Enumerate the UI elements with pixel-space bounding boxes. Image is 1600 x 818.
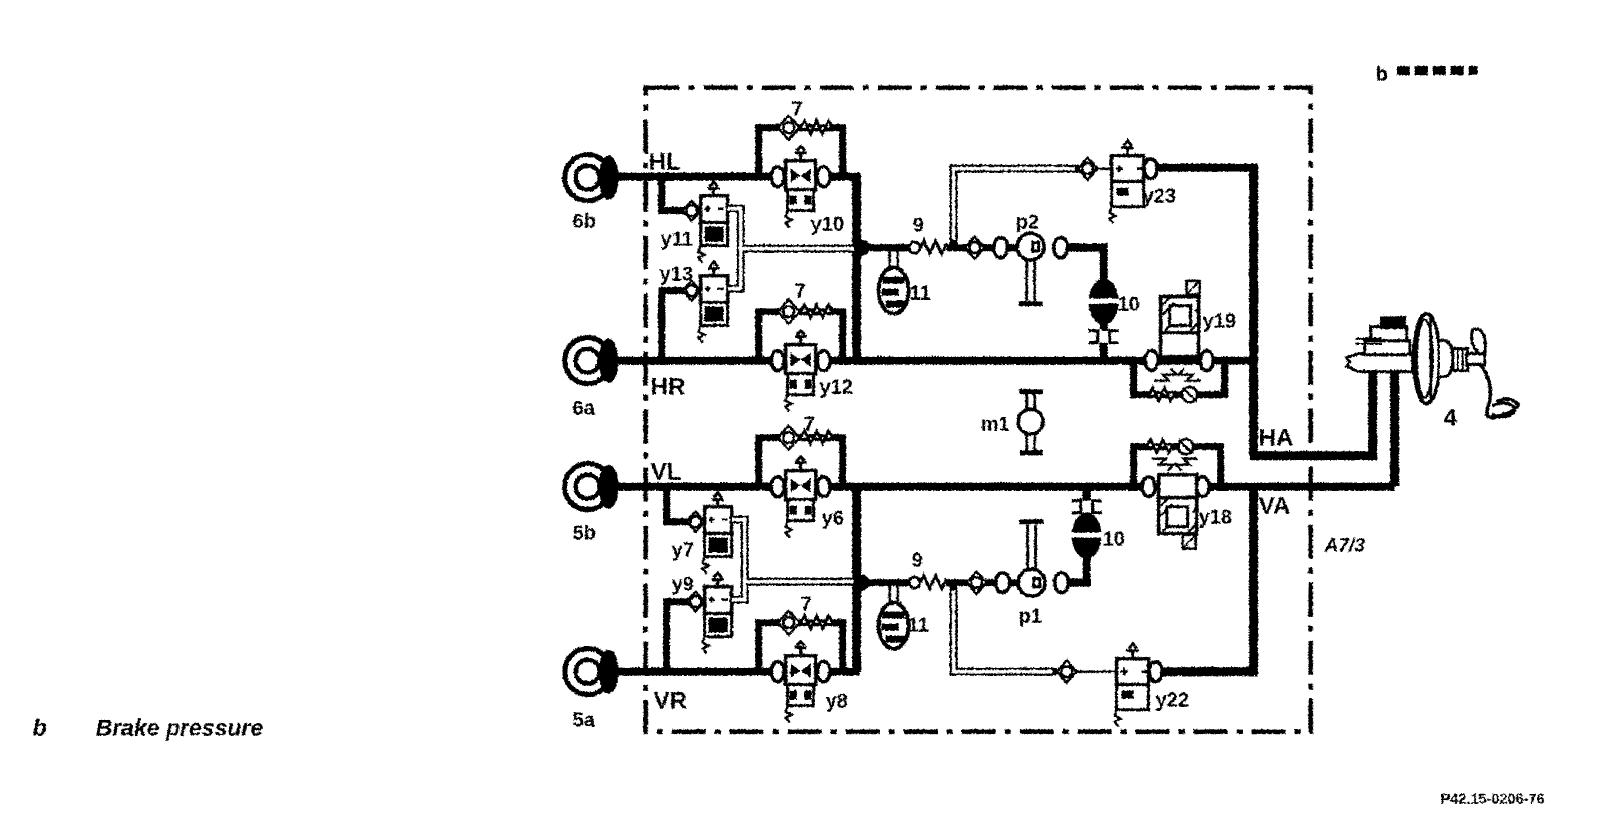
wire lower right trunk VA to y22	[1155, 482, 1253, 671]
svg-text:P42.15-0206-76: P42.15-0206-76	[1440, 791, 1544, 807]
check valve at pump p1 outlet	[1054, 572, 1068, 592]
wire return line from y7/y9 to pump suction (hollow)	[731, 519, 858, 599]
wire pump p2 outlet to damper 10	[1066, 247, 1103, 280]
svg-text:5a: 5a	[572, 709, 595, 731]
check valve at pump p2 outlet	[1053, 237, 1067, 257]
wheel sensor 5a	[564, 648, 618, 694]
svg-text:7: 7	[800, 593, 811, 615]
valve y13 inlet valve HR	[682, 261, 727, 342]
accumulator 11 (upper)	[878, 250, 908, 313]
svg-text:11: 11	[909, 282, 930, 304]
svg-text:5b: 5b	[572, 522, 595, 544]
valve y10 ABS valve HL	[771, 146, 830, 227]
wire feed branch to valve y13	[661, 290, 684, 360]
wire riser to valve y22 (hollow)	[953, 582, 1056, 671]
pump p1	[1018, 569, 1045, 596]
svg-text:y19: y19	[1202, 310, 1235, 332]
wire damper 10 to HR line	[1099, 322, 1107, 360]
wire return to valve y23 check	[1077, 157, 1097, 179]
wire damper 10 to VL line	[1082, 486, 1090, 514]
damper 10 (lower)	[1071, 512, 1101, 558]
valve y7 inlet valve VL	[686, 492, 731, 573]
svg-text:HL: HL	[648, 148, 680, 175]
svg-text:HR: HR	[650, 373, 685, 400]
svg-text:y8: y8	[825, 690, 847, 712]
svg-text:9: 9	[911, 549, 922, 571]
valve y19 changeover valve HR	[1145, 280, 1213, 380]
svg-text:y9: y9	[671, 573, 693, 595]
wire right trunk HA	[1249, 163, 1258, 455]
check valve at pump p1 inlet	[995, 572, 1009, 592]
wheel sensor 6b	[564, 154, 618, 200]
damper 10 (upper)	[1088, 278, 1118, 324]
wire lower pump suction line to restrictor 9	[861, 579, 910, 586]
wire HA outlet to master cylinder	[1249, 372, 1372, 455]
wire feed branch to valve y11	[661, 176, 684, 210]
valve y6 ABS valve VL	[771, 456, 830, 537]
wheel sensor 5b	[564, 463, 618, 509]
node junction upper suction	[853, 239, 869, 255]
valve y23 supply valve	[1094, 140, 1157, 223]
component frame A7/3 dash-dot border	[645, 87, 1310, 731]
bypass loop above y18	[1133, 439, 1220, 483]
svg-text:VR: VR	[653, 687, 686, 714]
bypass loop 7 over valve y6	[758, 425, 842, 488]
valve y12 ABS valve HR	[771, 330, 830, 411]
svg-text:b: b	[1375, 63, 1387, 85]
wire feed branch to valve y9	[666, 601, 688, 671]
check valve before pump p2	[964, 236, 984, 258]
master cylinder with booster and pedal (item 4)	[1346, 313, 1517, 417]
svg-text:HA: HA	[1258, 424, 1293, 451]
check valve at pump p2 inlet	[993, 237, 1007, 257]
wire restrictor 9 to pump p2	[946, 244, 1018, 251]
wire upper pump suction line to restrictor 9	[861, 244, 910, 251]
svg-text:b: b	[32, 714, 46, 740]
wire HR main brake line	[612, 356, 1253, 364]
svg-text:11: 11	[907, 614, 928, 636]
svg-text:VL: VL	[650, 458, 681, 485]
wire return line from y11/y13 to pump suction (hollow)	[727, 208, 858, 288]
wire y23 outlet to right trunk	[1147, 163, 1253, 171]
accumulator 11 (lower)	[878, 585, 908, 648]
svg-text:y10: y10	[810, 213, 843, 235]
wire vertical HL-to-HR link	[852, 172, 861, 360]
pump p2 drive shaft	[1018, 259, 1042, 303]
wire VR main brake line	[612, 667, 859, 675]
restriction brackets below damper 10	[1088, 330, 1118, 342]
bypass loop 7 over valve y10	[758, 115, 842, 178]
svg-text:6a: 6a	[572, 397, 595, 419]
svg-text:10: 10	[1102, 528, 1124, 550]
wire feed branch to valve y7	[666, 486, 688, 521]
svg-text:y23: y23	[1142, 185, 1175, 207]
wire VA outlet to master cylinder	[1390, 372, 1399, 486]
svg-text:4: 4	[1443, 404, 1457, 431]
bypass loop below y19	[1133, 364, 1224, 402]
wire VL / VA main brake line	[612, 482, 1394, 490]
svg-text:A7/3: A7/3	[1323, 535, 1365, 556]
valve y22 supply valve	[1074, 643, 1162, 726]
restriction brackets above damper 10	[1071, 500, 1101, 512]
wire riser to valve y23 (hollow)	[953, 168, 1078, 247]
valve y11 inlet valve HL	[682, 181, 727, 262]
svg-text:10: 10	[1117, 293, 1139, 315]
svg-text:m1: m1	[980, 413, 1009, 435]
wire pump p1 outlet to damper 10	[1067, 554, 1086, 582]
valve y18 changeover valve VL	[1142, 458, 1209, 548]
check valve before pump p1	[966, 571, 986, 593]
svg-text:y18: y18	[1198, 506, 1231, 528]
svg-text:y7: y7	[671, 539, 693, 561]
svg-text:7: 7	[794, 280, 805, 302]
svg-text:p2: p2	[1015, 211, 1038, 233]
pump p1 drive shaft	[1019, 521, 1043, 569]
svg-text:y11: y11	[660, 228, 692, 250]
wire HL main brake line	[612, 172, 856, 180]
restrictor 9 (upper)	[909, 240, 947, 253]
legend text b Brake pressure (bottom left)	[32, 714, 263, 740]
svg-text:7: 7	[791, 98, 802, 120]
svg-text:p1: p1	[1018, 605, 1041, 627]
restrictor 9 (lower)	[909, 575, 947, 588]
svg-text:VA: VA	[1258, 492, 1290, 519]
valve y8 ABS valve VR	[771, 641, 830, 722]
wire vertical VL-to-VR link	[852, 482, 861, 671]
svg-text:6b: 6b	[572, 210, 595, 232]
svg-text:9: 9	[912, 214, 923, 236]
node junction lower suction	[853, 574, 869, 590]
wheel sensor 6a	[564, 337, 618, 383]
pump p2	[1017, 233, 1044, 260]
bypass loop 7 over valve y12	[758, 299, 842, 362]
svg-text:y12: y12	[819, 376, 852, 398]
wire restrictor 9 to pump p1	[946, 579, 1019, 586]
svg-text:Brake pressure: Brake pressure	[95, 714, 263, 740]
legend marker b with dashed line (top right)	[1375, 63, 1477, 85]
svg-text:7: 7	[803, 413, 814, 435]
valve y9 inlet valve VR	[686, 572, 731, 653]
bypass loop 7 over valve y8	[758, 610, 842, 673]
svg-text:y13: y13	[659, 263, 692, 285]
svg-text:y22: y22	[1155, 689, 1188, 711]
motor m1	[1018, 391, 1043, 452]
svg-text:y6: y6	[821, 507, 843, 529]
check valve before valve y22	[1056, 660, 1076, 682]
